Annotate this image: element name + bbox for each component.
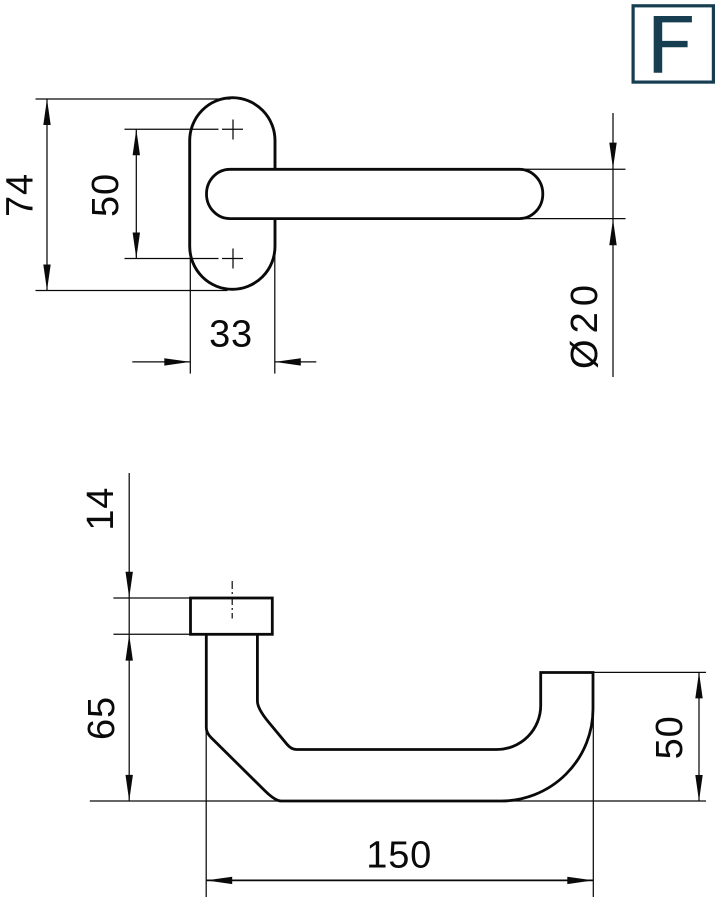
dim 33 dimension line left part [132, 361, 190, 363]
dim 74 extension line bottom [36, 290, 228, 292]
dim 74 dimension line [46, 99, 48, 291]
dim 50 dimension line [135, 129, 137, 258]
dim 150 arrow left [206, 877, 232, 884]
dim d20 extension line top [521, 168, 626, 170]
svg-text:65: 65 [81, 696, 123, 740]
screw hole centre mark bottom [232, 249, 234, 269]
handle side profile outline [206, 634, 593, 801]
dim d20 arrow down (above) [609, 143, 616, 169]
dim 14 / 65 dimension line [128, 473, 130, 801]
dim 33 dimension line right part [275, 361, 317, 363]
dim 50 right arrow down [695, 775, 702, 801]
svg-text:50: 50 [649, 715, 691, 759]
dim 33 extension line left [189, 248, 191, 374]
F letter [654, 16, 692, 73]
dim 74 arrow up [43, 99, 50, 125]
dim 33 arrow left [275, 358, 301, 365]
dim 150 arrow right [567, 877, 593, 884]
F logo box [633, 6, 713, 82]
dim 50 right extension line top [593, 671, 706, 673]
dim 14 extension line bottom [113, 633, 190, 635]
dim 14 extension line top [113, 597, 190, 599]
dim 50 extension line bottom [125, 258, 219, 260]
svg-text:50: 50 [85, 173, 127, 217]
dim 50 right dimension line [698, 672, 700, 801]
screw hole centre mark top [232, 120, 234, 140]
dim 14/65 arrow up (below collar) [126, 635, 133, 661]
dim 50 extension line top [125, 128, 219, 130]
dim 50 arrow up [133, 129, 140, 155]
svg-text:150: 150 [366, 835, 432, 877]
dim 150 dimension line [206, 879, 593, 881]
centreline through collar [231, 581, 233, 619]
ground / baseline (thin) [90, 800, 706, 802]
dim 150 extension line left [205, 728, 207, 897]
collar (side view) [191, 598, 273, 634]
dim 74 extension line top [36, 98, 231, 100]
svg-text:74: 74 [0, 173, 42, 217]
handle bar (front view) [207, 169, 543, 218]
dim 50 arrow down [133, 233, 140, 259]
dim 14 arrow down (above) [126, 572, 133, 598]
dim d20 arrow up (below) [609, 219, 616, 245]
dim 150 extension line right [592, 709, 594, 897]
dim d20 extension line bottom [521, 218, 626, 220]
oval rosette outline [190, 98, 275, 290]
svg-text:33: 33 [209, 314, 253, 356]
dim 50 right arrow up [695, 672, 702, 698]
dim 65 arrow down (at ground) [126, 775, 133, 801]
svg-text:14: 14 [80, 487, 122, 531]
dim d20 dimension line [612, 113, 614, 377]
dim 33 extension line right [274, 248, 276, 374]
dim 33 arrow right [164, 358, 190, 365]
svg-text:Ø20: Ø20 [564, 285, 606, 369]
dim 74 arrow down [43, 265, 50, 291]
